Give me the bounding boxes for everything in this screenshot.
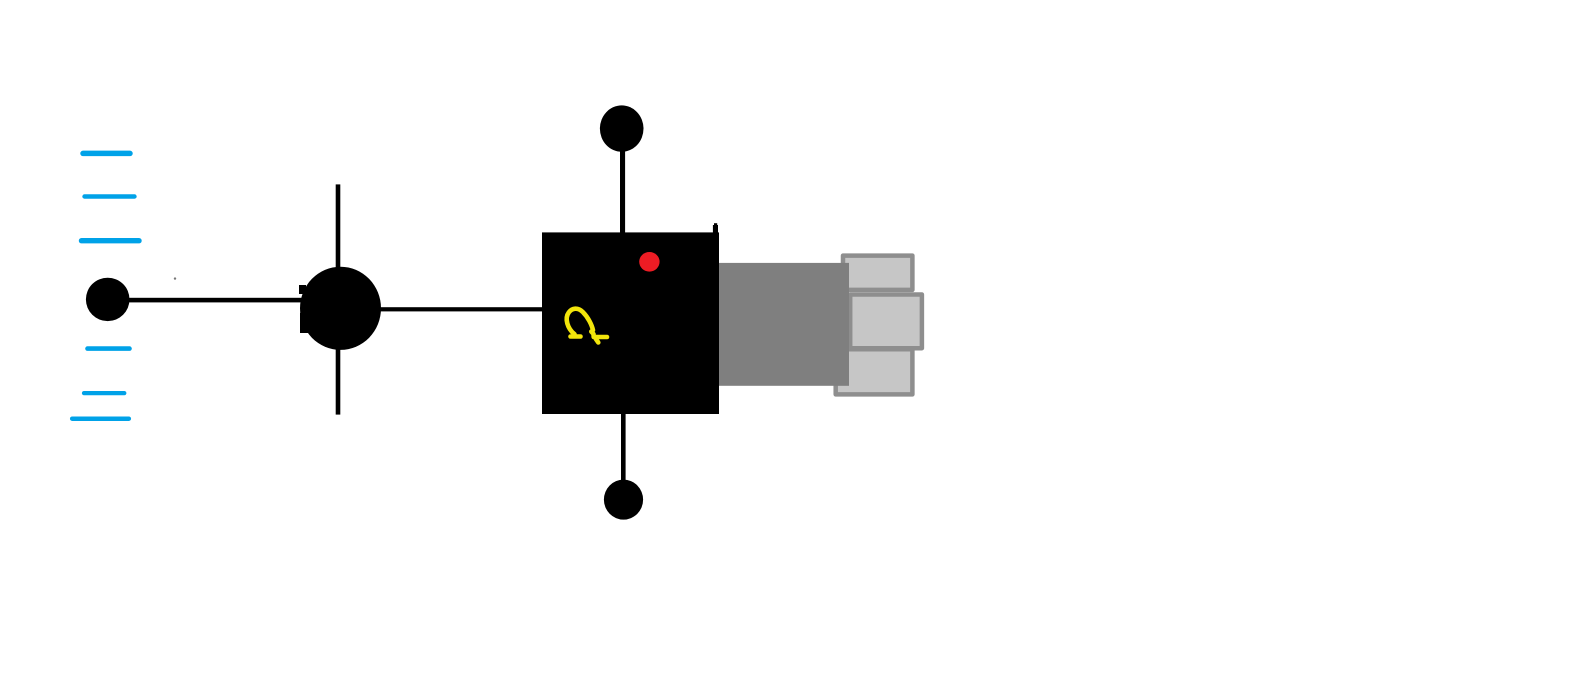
terminal ball top — [600, 105, 644, 151]
connector tooth top — [843, 256, 912, 290]
speck — [174, 277, 176, 279]
rotation arrow yellow — [567, 309, 607, 343]
motion dash 5 — [84, 391, 124, 395]
gearbox block gray — [718, 263, 849, 386]
motion dash 6 — [72, 416, 129, 421]
motion dash 2 — [85, 194, 135, 198]
terminal ball bottom — [604, 480, 643, 520]
hub bump lower — [300, 313, 308, 333]
node ball left — [86, 278, 130, 321]
motion dash 1 — [83, 151, 130, 157]
wire rod left — [126, 298, 304, 303]
wire rod right — [378, 307, 544, 311]
red indicator dot — [639, 252, 659, 272]
connector tooth bottom — [836, 349, 913, 394]
motion dash 4 — [88, 346, 130, 351]
terminal wire bottom — [621, 414, 626, 481]
motion dash 3 — [82, 238, 140, 243]
tick cap — [714, 223, 717, 227]
propeller shaft vertical — [336, 184, 341, 414]
hub bump — [299, 285, 306, 294]
hub circle — [300, 267, 381, 350]
connector tooth middle — [850, 295, 922, 349]
tick above square — [713, 225, 718, 234]
motor body square — [542, 232, 719, 414]
terminal wire top — [620, 148, 625, 233]
